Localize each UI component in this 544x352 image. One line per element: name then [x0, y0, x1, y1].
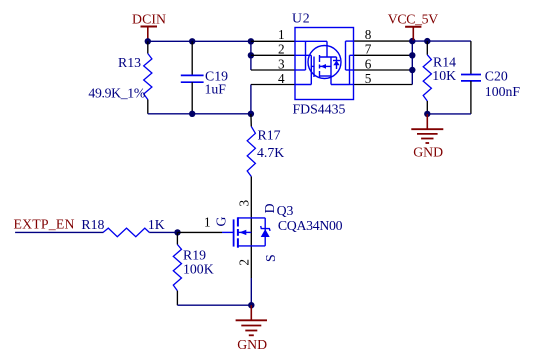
wire R18 to gate node — [149, 231, 177, 233]
drain stub — [238, 217, 265, 219]
svg-text:6: 6 — [365, 56, 372, 71]
svg-text:S: S — [263, 254, 278, 262]
resistor R17 — [247, 114, 284, 218]
svg-text:7: 7 — [365, 42, 372, 57]
port VCC_5V — [388, 11, 438, 41]
svg-text:3: 3 — [278, 56, 285, 71]
wire R19 bottom to source node — [177, 304, 251, 306]
pin 7 — [354, 54, 413, 56]
drain/source vertical — [250, 217, 252, 278]
svg-text:1: 1 — [204, 215, 211, 230]
gate bar — [233, 219, 235, 246]
body stub with arrow — [238, 231, 251, 233]
U2 body FDS4435 — [295, 28, 354, 100]
wire U2 left bus — [250, 41, 252, 70]
node pin2 junction — [248, 52, 254, 58]
svg-text:1: 1 — [278, 27, 285, 42]
svg-text:1uF: 1uF — [205, 82, 227, 97]
svg-text:GND: GND — [237, 337, 267, 352]
svg-text:R18: R18 — [81, 217, 104, 232]
svg-text:4: 4 — [278, 71, 285, 86]
internal bus right — [346, 40, 354, 42]
pin 4 — [251, 84, 295, 86]
svg-text:VCC_5V: VCC_5V — [388, 11, 438, 26]
svg-text:R13: R13 — [118, 55, 141, 70]
resistor R14 — [423, 41, 456, 114]
internal mosfet — [326, 41, 328, 57]
capacitor C20 — [461, 41, 520, 114]
node pin6 junction — [409, 67, 415, 73]
resistor R19 — [173, 232, 213, 305]
pin 3 — [251, 69, 295, 71]
svg-text:R17: R17 — [258, 127, 281, 142]
svg-text:100nF: 100nF — [485, 84, 521, 99]
svg-text:EXTP_EN: EXTP_EN — [14, 216, 75, 231]
ground GND bottom — [236, 305, 268, 352]
svg-text:4.7K: 4.7K — [257, 145, 284, 160]
svg-text:CQA34N00: CQA34N00 — [278, 218, 343, 233]
port DCIN — [132, 12, 166, 42]
node DCIN junction — [145, 38, 151, 44]
internal arrow — [321, 64, 327, 69]
pin 5 — [354, 84, 413, 86]
svg-text:GND: GND — [413, 145, 443, 160]
internal bus left — [295, 40, 327, 42]
wire VCC rail — [412, 40, 471, 42]
svg-text:U2: U2 — [292, 10, 310, 25]
svg-text:1K: 1K — [148, 217, 165, 232]
node R14 bottom junction — [424, 111, 430, 117]
svg-text:100K: 100K — [183, 262, 214, 277]
wire EXTP_EN to R18 — [15, 231, 103, 233]
wire U2 right bus — [411, 41, 413, 84]
node C19 top junction — [189, 38, 195, 44]
pin number labels U2 — [278, 27, 372, 86]
resistor R13 — [88, 41, 151, 114]
svg-text:2: 2 — [278, 42, 285, 57]
ground GND right — [411, 114, 443, 160]
svg-text:C20: C20 — [485, 69, 508, 84]
node pin7 junction — [409, 52, 415, 58]
internal diode — [336, 57, 338, 69]
node pin8 junction — [409, 38, 415, 44]
node pin1 junction — [248, 38, 254, 44]
wire bottom right rail — [427, 113, 471, 115]
svg-text:D: D — [262, 203, 277, 213]
transistor Q3 — [204, 200, 343, 306]
svg-text:49.9K_1%: 49.9K_1% — [88, 86, 145, 101]
port EXTP_EN — [14, 216, 75, 231]
wire pin4 drop — [250, 85, 252, 114]
svg-text:5: 5 — [365, 71, 372, 86]
node gate junction — [174, 229, 180, 235]
pin 2 — [251, 54, 295, 56]
wire top rail DCIN — [148, 40, 251, 42]
channel bar segments — [237, 217, 239, 226]
transistor Q3 pin 1 gate lead — [178, 231, 223, 233]
svg-text:2: 2 — [237, 259, 252, 266]
svg-text:G: G — [214, 217, 229, 227]
node gate rail junction — [248, 111, 254, 117]
svg-text:10K: 10K — [432, 68, 456, 83]
capacitor C19 — [181, 41, 228, 114]
wire bottom rail — [148, 113, 251, 115]
mosfet U2 pin 1 — [251, 40, 295, 42]
node C19 bottom junction — [189, 111, 195, 117]
node R14 top junction — [424, 38, 430, 44]
svg-text:FDS4435: FDS4435 — [293, 101, 346, 116]
svg-text:8: 8 — [365, 27, 372, 42]
svg-text:R19: R19 — [183, 248, 206, 263]
body diode branch — [264, 218, 266, 246]
source stub — [238, 245, 265, 247]
svg-text:Q3: Q3 — [277, 203, 294, 218]
resistor R18 — [81, 217, 164, 237]
node source junction — [248, 302, 254, 308]
pin 6 — [354, 69, 413, 71]
pin 8 — [354, 40, 413, 42]
svg-text:3: 3 — [237, 200, 252, 207]
svg-text:DCIN: DCIN — [132, 12, 166, 27]
